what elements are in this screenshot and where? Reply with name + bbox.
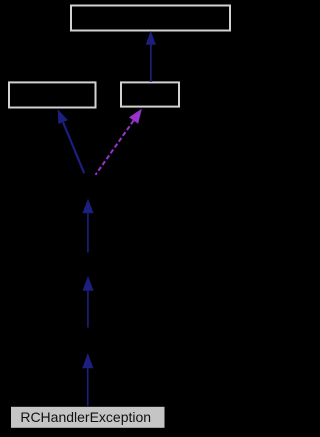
inheritance arrow B head: [58, 109, 68, 124]
usage arrow C head: [129, 109, 142, 124]
node box RCHandlerException (filled, current class): [11, 406, 166, 428]
node box middle-right (empty): [121, 82, 179, 106]
node box top (base class, empty): [71, 6, 230, 31]
inheritance arrow D head: [82, 199, 93, 214]
border line bottom edge: [166, 436, 236, 437]
border line left edge: [0, 0, 1, 437]
inheritance arrow E head: [82, 276, 93, 291]
junction node dot: [88, 177, 92, 181]
border line right edge: [235, 0, 236, 390]
usage arrow C dashed shaft (junction to middle-right box): [96, 121, 134, 175]
inheritance arrow A shaft (middle-right box to top box): [150, 45, 152, 83]
border line top edge: [0, 0, 70, 1]
inheritance arrow A head: [146, 31, 156, 45]
inheritance arrow F head: [82, 353, 93, 368]
inheritance arrow D shaft (chain, upper): [87, 213, 89, 253]
inheritance arrow B shaft (junction to middle-left box): [63, 122, 84, 173]
node box middle-left (empty): [9, 82, 96, 107]
inheritance arrow F shaft (chain, lower, into RCHandlerException): [87, 368, 89, 407]
inheritance arrow E shaft (chain, middle): [87, 291, 89, 328]
svg-text:RCHandlerException: RCHandlerException: [20, 409, 151, 425]
